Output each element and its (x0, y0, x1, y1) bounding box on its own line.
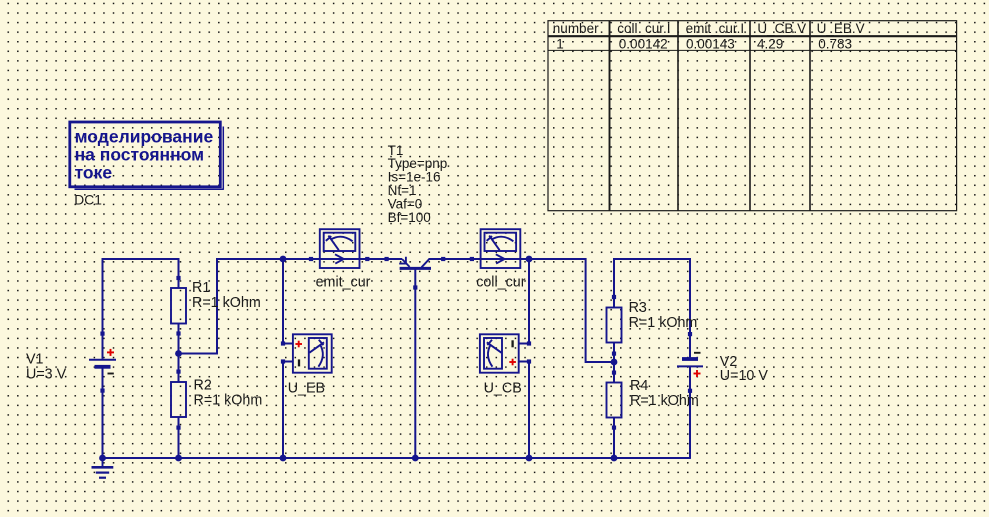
svg-text:4.29: 4.29 (757, 37, 783, 52)
wire collector run with jog down (429, 259, 615, 362)
svg-text:0.00142: 0.00142 (619, 37, 668, 52)
wire node to riser to emitter run (179, 259, 403, 354)
resistor R3 (607, 295, 698, 356)
wire ground rail (102, 457, 690, 459)
svg-text:U=3 V: U=3 V (26, 367, 67, 383)
voltmeter U_CB (480, 334, 531, 396)
svg-text:R3: R3 (629, 300, 647, 316)
emitter arrow barbs (399, 257, 406, 264)
DC simulation box DC1 (70, 122, 224, 207)
emitter diagonal (402, 259, 410, 267)
table of results (548, 21, 957, 211)
svg-text:U=10 V: U=10 V (720, 368, 769, 384)
svg-text:0.783: 0.783 (818, 37, 852, 52)
svg-text:U_CB: U_CB (484, 381, 522, 397)
wire U_CB minus riser (519, 258, 529, 343)
wire R4 bottom to rail (613, 418, 615, 459)
junction ground rail at U_CB (526, 455, 533, 462)
svg-text:coll_cur.I: coll_cur.I (617, 21, 670, 36)
svg-text:R1: R1 (192, 280, 210, 296)
wire R2 bottom to rail (178, 417, 180, 459)
wire R1 bottom to node (178, 324, 180, 354)
junction emitter line / U_EB node (280, 256, 287, 263)
svg-text:U_EB.V: U_EB.V (817, 21, 865, 36)
wire R2 top (178, 354, 180, 383)
svg-text:R=1 kOhm: R=1 kOhm (629, 315, 698, 331)
wire U_EB minus drop (283, 362, 293, 459)
ground (92, 458, 114, 478)
wire U_CB plus drop (519, 362, 529, 459)
ammeter emit_cur (309, 229, 371, 290)
resistor R2 (171, 370, 262, 430)
base bar (400, 267, 431, 270)
voltage source V2 (677, 332, 768, 393)
svg-text:0.00143: 0.00143 (686, 37, 735, 52)
transistor T1 property text (388, 143, 448, 225)
svg-text:Bf=100: Bf=100 (388, 210, 431, 225)
svg-text:U_EB: U_EB (288, 381, 325, 397)
pins (385, 257, 389, 261)
svg-text:emit_cur: emit_cur (316, 274, 371, 290)
wire V1 top to R1 top (103, 259, 179, 359)
wire V2 bottom to rail (689, 367, 691, 459)
wire base drop (414, 268, 416, 459)
junction R1-R2 divider node (175, 350, 182, 357)
wire U_EB plus riser (283, 258, 293, 343)
ammeter coll_cur (470, 229, 526, 290)
svg-text:R=1 kOhm: R=1 kOhm (192, 295, 261, 311)
svg-text:emit_cur.I: emit_cur.I (686, 21, 745, 36)
wire V1 bottom to ground rail (102, 367, 104, 459)
svg-text:R=1 kOhm: R=1 kOhm (630, 393, 699, 409)
wire R4 top (613, 362, 615, 383)
wire R3 top riser and run to V2 (614, 259, 690, 357)
svg-text:DC1: DC1 (74, 192, 102, 207)
svg-text:coll_cur: coll_cur (476, 274, 526, 290)
collector diagonal (422, 259, 430, 267)
svg-text:R4: R4 (630, 378, 648, 394)
junction ground rail at R4 (611, 455, 618, 462)
svg-text:1: 1 (556, 37, 564, 52)
junction ground rail at U_EB (280, 455, 287, 462)
svg-text:number: number (553, 21, 599, 36)
wire R3 bottom (613, 343, 615, 363)
svg-text:V1: V1 (26, 352, 44, 368)
junction R3-R4 divider node (611, 359, 618, 366)
junction collector line / U_CB node (526, 256, 533, 263)
svg-text:R2: R2 (194, 378, 212, 394)
resistor R4 (607, 371, 699, 430)
svg-text:токе: токе (75, 163, 113, 183)
svg-text:моделирование: моделирование (75, 127, 214, 147)
resistor R1 (171, 276, 261, 336)
svg-text:R=1 kOhm: R=1 kOhm (194, 392, 263, 408)
junction ground rail at R2 (175, 455, 182, 462)
voltage source V1 (26, 332, 116, 393)
svg-text:U_CB.V: U_CB.V (757, 21, 806, 36)
voltmeter U_EB (281, 334, 332, 396)
junction ground rail at V1 (99, 455, 106, 462)
junction ground rail at base (412, 455, 419, 462)
svg-text:на постоянном: на постоянном (75, 145, 204, 165)
transistor T1 (385, 257, 446, 290)
